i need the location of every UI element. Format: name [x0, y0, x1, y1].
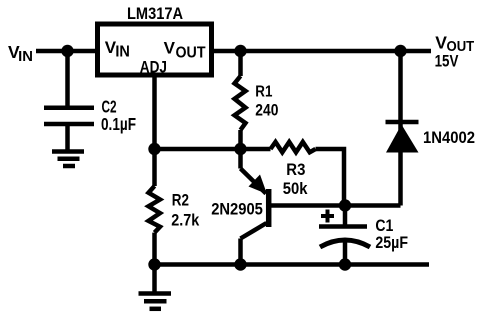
- svg-text:50k: 50k: [283, 180, 308, 198]
- svg-text:25µF: 25µF: [375, 234, 408, 252]
- svg-text:OUT: OUT: [176, 45, 206, 62]
- svg-text:R2: R2: [172, 192, 189, 210]
- svg-text:2N2905: 2N2905: [211, 200, 263, 219]
- svg-text:240: 240: [255, 102, 278, 120]
- svg-text:V: V: [164, 39, 176, 58]
- svg-text:IN: IN: [115, 44, 129, 61]
- svg-text:V: V: [435, 33, 447, 53]
- svg-text:1N4002: 1N4002: [423, 128, 475, 147]
- svg-text:C1: C1: [375, 217, 393, 235]
- svg-text:ADJ: ADJ: [140, 58, 167, 77]
- svg-text:IN: IN: [18, 48, 33, 65]
- svg-text:LM317A: LM317A: [127, 4, 183, 23]
- svg-text:R3: R3: [286, 161, 305, 179]
- svg-text:R1: R1: [255, 84, 272, 101]
- svg-text:2.7k: 2.7k: [171, 212, 200, 230]
- svg-text:15V: 15V: [435, 52, 459, 70]
- svg-text:0.1µF: 0.1µF: [101, 114, 136, 134]
